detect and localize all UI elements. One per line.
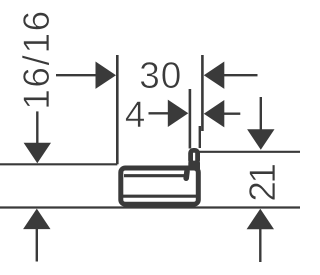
hook tab base fill — [188, 162, 200, 169]
wire: right upper line — [199, 151, 300, 153]
hook inner bottom line — [123, 195, 197, 198]
node: right up arrow — [247, 209, 274, 262]
node: right down arrow — [247, 97, 274, 150]
hook lip tip — [183, 171, 189, 178]
wire: bottom line — [0, 206, 300, 208]
node: left up arrow — [23, 209, 50, 262]
wire: extension line C2 — [199, 126, 201, 148]
node: dim 30 left arrow — [56, 62, 116, 89]
wire: extension line B — [189, 89, 192, 149]
svg-text:30: 30 — [139, 55, 182, 96]
node: dim 4 right arrow — [204, 100, 241, 127]
svg-text:16/16: 16/16 — [16, 9, 57, 110]
hook tab — [191, 150, 198, 163]
hook body outline — [121, 168, 199, 204]
svg-text:4: 4 — [125, 94, 146, 135]
svg-text:21: 21 — [242, 165, 283, 202]
wire: extension line C — [201, 55, 204, 131]
node: dim 30 right arrow — [204, 62, 258, 89]
node: left down arrow — [24, 111, 51, 163]
node: dim 4 left arrow — [149, 100, 189, 127]
wire: left wall line — [0, 163, 117, 165]
wire: extension line A — [116, 55, 119, 164]
hook inner top line with curl — [124, 174, 184, 177]
